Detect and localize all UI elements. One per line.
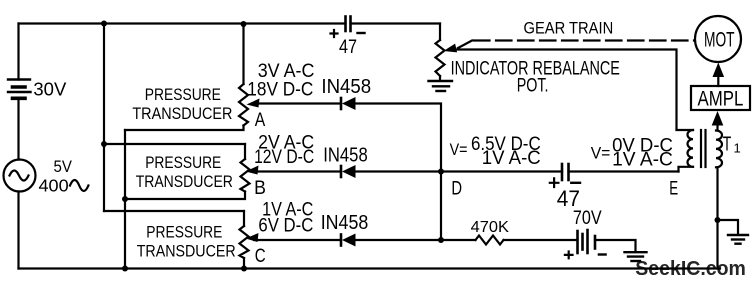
svg-text:6V D-C: 6V D-C [258,215,313,237]
transformer T1 core [700,130,702,167]
pressure transducer pot R2 (B) [244,144,246,159]
wire wiper solid line to T1 [454,50,677,130]
svg-text:470K: 470K [471,219,510,236]
svg-text:IN458: IN458 [321,212,369,234]
wire row2 wiper B to cap [254,170,341,172]
svg-text:47: 47 [339,37,357,58]
label + C2 [550,178,559,187]
svg-text:TRANSDUCER: TRANSDUCER [132,105,232,123]
AC source sine symbol [10,171,29,181]
svg-text:E: E [669,177,678,199]
transformer T1 primary (left coil) [677,129,694,131]
svg-text:POT.: POT. [517,76,549,97]
wire row3 wiper C to diode [254,239,341,241]
svg-text:IN458: IN458 [321,76,371,98]
capacitor C2 47 mid [562,164,569,180]
wire row3 470K to battery [504,239,578,241]
transformer T1 secondary (right coil) [716,131,722,168]
resistor R4 470K [476,236,504,245]
battery B1 30V [8,80,31,99]
label - C2 [571,182,580,184]
svg-text:C: C [255,245,266,267]
svg-text:TRANSDUCER: TRANSDUCER [136,173,233,191]
node junction top rail x104 [101,21,107,27]
wire top rail left segment [19,22,346,24]
label + B2 [565,252,573,259]
wire row2 cap to E [569,170,679,172]
wiper arrow pot B [246,166,259,175]
wire arrow T1 to AMPL [716,122,718,130]
node junction x125 box2 bottom [122,196,128,202]
node junction x244 bottom rail [241,266,247,272]
wire vertical x104 from top rail to box3 [103,24,105,212]
AC source G1 5V 400Hz [4,160,36,192]
indicator rebalance pot R5 [439,24,441,41]
wire top rail right segment [351,22,441,24]
svg-text:5V: 5V [54,157,73,176]
box3 top edge [104,210,244,212]
capacitor C1 47 top [346,17,351,32]
svg-text:IN458: IN458 [323,145,367,167]
svg-text:70V: 70V [573,207,602,229]
label - C1 [358,32,365,34]
wire gear train dashed [474,39,695,41]
ground G1 (indicator pot) [429,81,453,91]
AC cycles symbol after 400 [70,180,88,191]
svg-text:V=: V= [591,144,611,163]
box2 top edge [104,143,245,145]
wire left column vertical (source branch) [17,24,19,269]
wire bottom rail [19,267,721,269]
node junction D [438,169,444,175]
svg-text:1V A-C: 1V A-C [612,149,673,171]
wiper arrow pot C [246,233,259,242]
svg-text:18V D-C: 18V D-C [247,79,313,101]
svg-text:PRESSURE: PRESSURE [145,86,221,104]
wire diagonal to gear train dashes [458,41,472,49]
diode CR3 IN458 [341,234,356,247]
pressure transducer pot R1 (A): top stub, zigzag, bottom [242,24,244,84]
wire vertical x125 pots bottom bus [124,130,126,269]
node junction row3 x441 [438,237,444,243]
label - B2 [599,253,606,255]
motor MOT [695,16,741,62]
battery B2 70V [578,230,596,253]
svg-text:12V D-C: 12V D-C [254,146,314,168]
ground G2 (70V battery) [625,252,647,261]
svg-text:MOT: MOT [704,29,735,52]
ground G3 (T1) [728,235,748,244]
svg-text:PRESSURE: PRESSURE [146,224,222,242]
svg-text:30V: 30V [33,80,66,100]
svg-text:A: A [255,110,266,131]
svg-text:SeekIC.com: SeekIC.com [635,257,746,280]
diode CR2 IN458 [341,165,356,178]
svg-text:AMPL: AMPL [698,87,744,110]
svg-text:400: 400 [39,175,69,195]
node junction x104 box2 [101,141,107,147]
pressure transducer pot R3 (C) [243,211,245,226]
wire arrow AMPL to MOT [717,73,719,86]
svg-text:D: D [451,177,462,199]
wiper arrow indicator pot [444,44,458,53]
svg-text:PRESSURE: PRESSURE [145,154,221,172]
svg-text:TRANSDUCER: TRANSDUCER [137,243,236,261]
svg-text:B: B [254,177,266,199]
label + C1 [331,30,338,37]
wire battery to ground [595,240,636,252]
node junction top rail x243 [241,21,247,27]
amplifier AMPL box [691,86,750,110]
svg-text:T: T [723,134,732,156]
svg-text:1: 1 [734,141,741,156]
svg-text:GEAR TRAIN: GEAR TRAIN [524,19,614,37]
node junction T1 ground [715,217,721,223]
node junction x125 bottom rail [122,266,128,272]
svg-text:V=: V= [450,140,468,159]
svg-text:1V A-C: 1V A-C [482,147,541,169]
wire row1 wiper A to corner [255,102,341,104]
diode CR1 IN458 [341,97,356,110]
wiper arrow pot A [247,99,260,108]
wire to ground G3 [718,220,739,235]
